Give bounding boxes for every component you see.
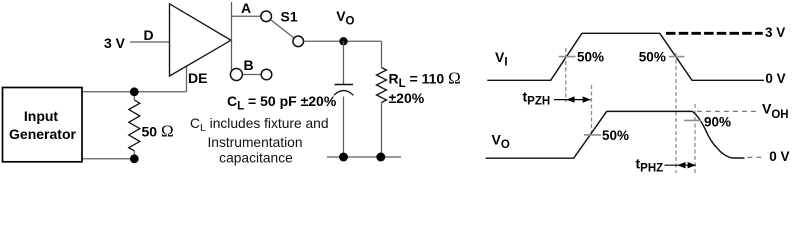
terminal B circle right xyxy=(261,69,272,80)
svg-text:90%: 90% xyxy=(704,115,731,130)
dashed vertical at VI falling 50% xyxy=(675,53,677,173)
svg-text:S1: S1 xyxy=(281,9,298,25)
tPHZ arrowhead right xyxy=(688,162,696,168)
terminal A circle xyxy=(261,11,272,22)
terminal B circle left xyxy=(230,69,242,81)
svg-text:50%: 50% xyxy=(602,128,629,143)
junction dot top of 50 ohm xyxy=(130,87,139,96)
switch pole circle xyxy=(293,36,304,47)
svg-text:Input: Input xyxy=(24,108,59,124)
svg-text:0 V: 0 V xyxy=(765,71,785,86)
tPHZ arrowhead left xyxy=(677,162,685,168)
0V dashed stub lower xyxy=(748,156,762,158)
wire from B stub xyxy=(236,74,266,76)
svg-text:3 V: 3 V xyxy=(104,35,126,51)
dashed vertical at VO falling 90% xyxy=(694,104,696,173)
capacitor bottom lead xyxy=(343,97,345,158)
svg-text:A: A xyxy=(241,0,251,16)
wire top from Input Generator to DE xyxy=(82,91,187,93)
3V dashed level line xyxy=(666,32,763,35)
Input Generator box xyxy=(3,88,83,162)
wire from 3V source to driver input D xyxy=(130,41,170,43)
svg-text:Generator: Generator xyxy=(9,126,76,142)
rail junction dot under RL xyxy=(376,153,385,162)
node VO dot xyxy=(339,37,347,45)
tPZH arrowhead right xyxy=(583,96,591,102)
capacitor CL curved plate xyxy=(334,91,354,96)
svg-text:0 V: 0 V xyxy=(769,149,789,164)
waveform VI xyxy=(487,33,764,80)
ground rail at bottom xyxy=(327,156,401,158)
capacitor CL top plate xyxy=(335,84,354,86)
rail junction dot under CL xyxy=(339,153,348,162)
svg-text:Instrumentation: Instrumentation xyxy=(207,135,302,150)
svg-text:±20%: ±20% xyxy=(389,90,425,106)
tick 50% rising VO xyxy=(584,134,601,136)
svg-text:B: B xyxy=(244,57,254,73)
resistor R 50ohm leads xyxy=(133,92,135,100)
tick 50% falling VI xyxy=(669,56,684,58)
resistor R1 50 ohm zigzag xyxy=(129,100,140,151)
op-amp driver U1 triangle xyxy=(170,4,232,76)
dashed vertical at VO rising 50% xyxy=(591,85,593,137)
wire DE vertical xyxy=(186,66,188,92)
node A vertical wire at driver output xyxy=(231,2,233,71)
switch S1 arm xyxy=(266,16,298,41)
dashed vertical at VI rising 50% xyxy=(565,48,567,102)
tPZH arrowhead left xyxy=(566,96,574,102)
svg-text:50%: 50% xyxy=(639,50,666,65)
junction dot bottom of 50 ohm xyxy=(130,154,139,163)
wire VO node down to capacitor xyxy=(343,41,345,84)
svg-text:50 Ω: 50 Ω xyxy=(142,122,174,141)
wire bottom from Input Generator to 50 ohm resistor xyxy=(82,158,134,160)
VOH dashed level line xyxy=(697,110,757,112)
waveform VO xyxy=(486,111,693,158)
tick 50% rising VI xyxy=(559,56,576,58)
svg-text:D: D xyxy=(144,27,154,43)
svg-text:3 V: 3 V xyxy=(765,25,785,40)
svg-text:DE: DE xyxy=(188,70,207,86)
wire from switch pole to VO node and RL xyxy=(298,40,381,42)
tick 90% falling VO xyxy=(684,119,701,121)
waveform VO falling decay curve xyxy=(693,111,745,158)
tPHZ arrow leader xyxy=(665,164,696,166)
tPZH arrow leader xyxy=(554,99,591,101)
wire RL branch vertical xyxy=(381,41,383,67)
svg-text:50%: 50% xyxy=(577,50,604,65)
resistor RL zigzag xyxy=(377,68,387,103)
wire to switch terminal A xyxy=(232,15,262,17)
svg-text:capacitance: capacitance xyxy=(219,151,293,166)
